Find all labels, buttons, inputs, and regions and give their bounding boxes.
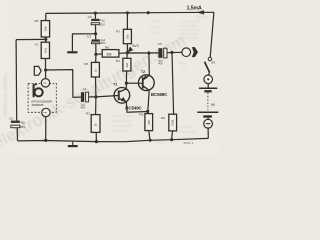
svg-text:C4: C4 xyxy=(88,15,92,19)
svg-text:tiw eslan: tiw eslan xyxy=(168,41,181,45)
svg-text:39k: 39k xyxy=(106,53,112,57)
svg-text:~: ~ xyxy=(43,110,47,117)
svg-text:R2: R2 xyxy=(86,111,90,115)
svg-text:an lut leno: an lut leno xyxy=(178,125,194,129)
svg-text:C3: C3 xyxy=(87,34,91,38)
svg-text:9866 1: 9866 1 xyxy=(183,141,194,145)
svg-text:40V: 40V xyxy=(158,62,163,66)
svg-text:R6: R6 xyxy=(105,45,109,49)
svg-text:~: ~ xyxy=(43,80,47,87)
svg-text:9V: 9V xyxy=(211,103,216,107)
svg-text:ne og ehl: ne og ehl xyxy=(112,129,126,133)
svg-text:BC559C: BC559C xyxy=(151,92,168,97)
svg-text:dh nl: dh nl xyxy=(152,31,160,35)
svg-text:R5: R5 xyxy=(84,62,88,66)
svg-text:25V: 25V xyxy=(100,22,105,26)
svg-text:5k6: 5k6 xyxy=(126,34,130,39)
svg-text:120k: 120k xyxy=(171,119,175,126)
svg-text:44DB1185: 44DB1185 xyxy=(31,103,43,107)
svg-text:10K: 10K xyxy=(44,26,48,31)
svg-text:S1: S1 xyxy=(211,60,215,64)
svg-text:R3: R3 xyxy=(139,112,143,116)
svg-text:6k8: 6k8 xyxy=(125,62,129,67)
svg-text:40V: 40V xyxy=(81,106,86,110)
svg-text:atsual bluada: atsual bluada xyxy=(112,119,132,123)
svg-text:C1: C1 xyxy=(83,87,87,91)
svg-text:25V: 25V xyxy=(20,125,25,129)
svg-text:R1: R1 xyxy=(35,43,39,47)
svg-text:lemels asag: lemels asag xyxy=(178,130,196,134)
svg-text:R4: R4 xyxy=(116,59,120,63)
svg-text:wot mes: wot mes xyxy=(196,15,209,19)
svg-text:47µ: 47µ xyxy=(20,121,25,125)
svg-text:el anunsqaw: el anunsqaw xyxy=(112,124,132,128)
svg-text:1,5mA: 1,5mA xyxy=(187,5,202,11)
svg-text:40V: 40V xyxy=(101,41,106,45)
svg-text:etsb a: etsb a xyxy=(150,25,159,29)
svg-text:C2: C2 xyxy=(9,117,13,121)
svg-text:R7: R7 xyxy=(116,29,120,33)
svg-text:BC549C: BC549C xyxy=(125,105,142,110)
svg-text:n lei: n lei xyxy=(178,61,184,65)
svg-text:elektronik-schaltu: elektronik-schaltu xyxy=(3,73,9,116)
svg-text:R8: R8 xyxy=(34,19,38,23)
svg-text:Mazild noastb: Mazild noastb xyxy=(112,114,133,118)
svg-text:on ly: on ly xyxy=(152,19,159,23)
svg-text:T2: T2 xyxy=(141,70,145,74)
svg-text:470: 470 xyxy=(147,120,151,125)
svg-text:T1: T1 xyxy=(113,83,117,87)
svg-text:lst measold: lst measold xyxy=(180,36,197,40)
svg-text:m el: m el xyxy=(180,67,187,71)
svg-text:C5: C5 xyxy=(158,42,162,46)
svg-text:5V2: 5V2 xyxy=(132,44,139,48)
svg-text:2K2: 2K2 xyxy=(44,47,48,53)
svg-text:R9: R9 xyxy=(161,116,165,120)
